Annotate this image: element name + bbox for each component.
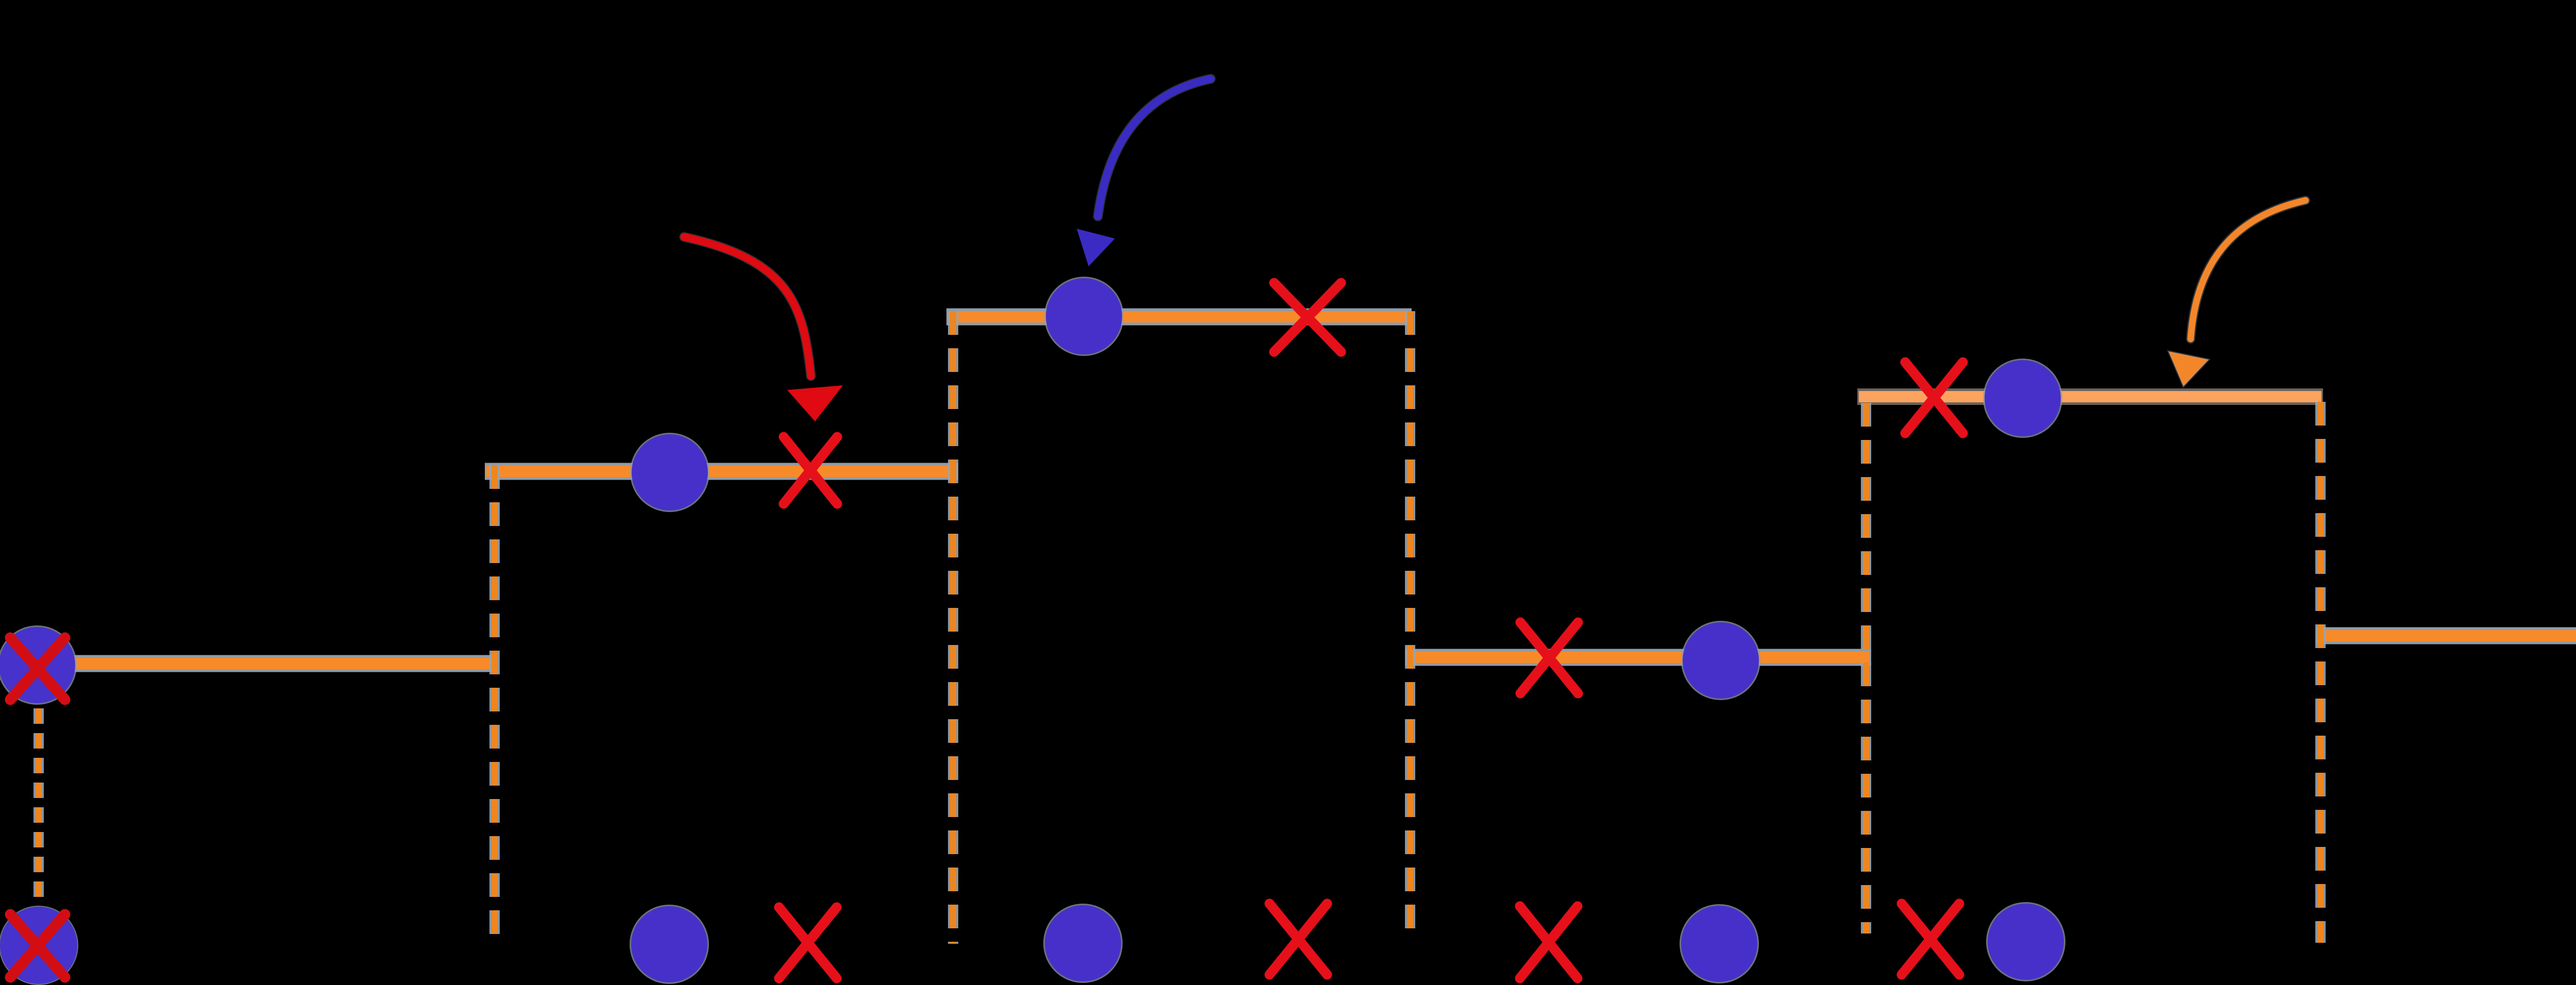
closed endpoint dot on segment 4: [1681, 621, 1760, 700]
step segment 1: [74, 658, 496, 669]
bottom axis dot below segment 4: [1680, 904, 1759, 983]
dashed boundary 2 halo: [489, 465, 500, 943]
step segment 4 halo: [1405, 649, 1871, 666]
dashed boundary 1 halo: [33, 708, 44, 906]
bottom-left circle with X: [0, 906, 78, 985]
dashed boundary 2: [492, 465, 498, 943]
dashed boundary 6 halo: [2315, 402, 2326, 943]
blue curved annotation arrow: [1077, 79, 1211, 266]
dashed boundary 4: [1407, 311, 1413, 935]
dashed boundary 3 halo: [948, 311, 958, 944]
closed endpoint dot on segment 3: [1044, 277, 1124, 356]
step segment 3: [948, 311, 1410, 322]
bottom axis dot below segment 2: [630, 905, 709, 984]
step segment 4: [1407, 652, 1870, 663]
closed endpoint dot on segment 2: [630, 433, 709, 512]
step segment 1 halo: [72, 655, 497, 672]
step segment 6 halo: [2316, 627, 2576, 644]
left boundary circle with X (segment 1 start): [0, 625, 77, 705]
bottom axis X below segment 2: [779, 907, 837, 978]
dashed boundary 6: [2317, 402, 2324, 943]
excluded X on segment 5: [1905, 362, 1963, 433]
step segment 2 halo: [485, 463, 958, 480]
excluded X on segment 3: [1274, 283, 1341, 352]
dashed boundary 5: [1863, 403, 1869, 933]
excluded X on segment 4: [1520, 622, 1578, 693]
dashed boundary 3: [950, 311, 956, 944]
step segment 2: [486, 466, 957, 477]
dashed boundary 1: [36, 708, 42, 906]
step segment 5 (light orange): [1859, 391, 2321, 402]
bottom axis X below segment 5: [1902, 904, 1959, 975]
dashed boundary 5 halo: [1861, 403, 1871, 933]
step segment 5 halo (light): [1857, 388, 2323, 405]
orange curved annotation arrow: [2168, 200, 2306, 386]
step segment 3 halo: [946, 309, 1412, 326]
bottom axis dot below segment 3: [1043, 904, 1123, 983]
excluded X on segment 2: [784, 437, 837, 504]
closed endpoint dot on segment 5: [1983, 359, 2062, 438]
bottom axis dot below segment 5: [1986, 902, 2065, 981]
red curved annotation arrow: [684, 237, 843, 421]
step segment 6: [2318, 630, 2576, 641]
bottom axis X below segment 3: [1269, 904, 1327, 975]
bottom axis X below segment 4: [1520, 906, 1578, 978]
dashed boundary 4 halo: [1405, 311, 1415, 935]
